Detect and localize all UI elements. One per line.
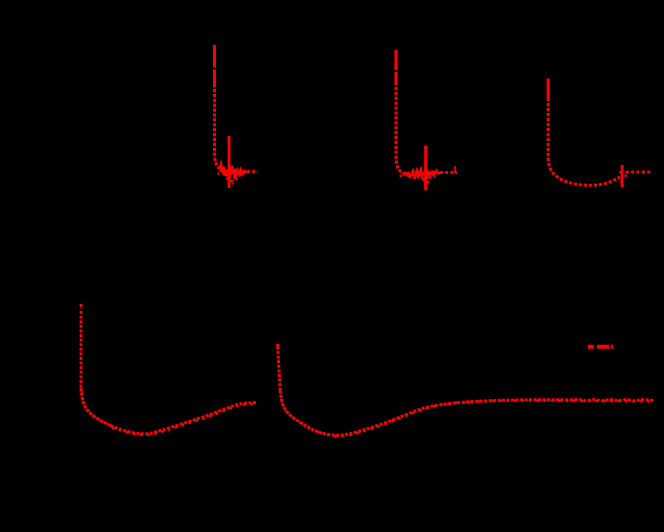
curve T3 clean tail dashes <box>626 171 653 174</box>
curve T1 dotted vertical drop and elbow <box>215 84 220 169</box>
curve T2 vertical spike <box>424 146 427 191</box>
curve T3 dotted drop and broad dip <box>548 98 620 185</box>
curve B2 dense elbow <box>280 390 318 432</box>
curve B1 jitter overlay <box>112 404 257 435</box>
curve T1 extra noise specks <box>217 173 237 185</box>
curve T1 vertical spike <box>228 136 231 188</box>
curve B1 dotted vertical drop <box>80 304 83 388</box>
curve T2 extra noise specks <box>400 175 431 187</box>
curve T2 clean tail dashes <box>440 171 457 174</box>
legend dash sample <box>588 345 613 349</box>
curve B1 dense elbow <box>81 388 111 426</box>
curve B2 dotted vertical drop <box>276 344 279 350</box>
curve T3 vertical spike <box>621 165 624 188</box>
curve B2 dip and rise <box>319 399 654 435</box>
curve T1 noisy flat segment <box>220 164 248 177</box>
curve T2 solid top of vertical drop <box>394 50 397 82</box>
curve B2 jitter overlay <box>320 401 653 437</box>
curve T1 solid top of vertical drop <box>213 45 216 84</box>
curve B1 dip and rise <box>111 403 258 434</box>
curve T3 noise near spike <box>620 171 627 187</box>
curve T2 end tick <box>454 166 456 173</box>
curve T2 dotted vertical drop and elbow <box>396 82 411 176</box>
curve T2 noisy flat segment <box>404 170 440 178</box>
curve T3 solid top of vertical drop <box>547 79 550 99</box>
curve T1 clean tail dashes <box>247 170 258 173</box>
